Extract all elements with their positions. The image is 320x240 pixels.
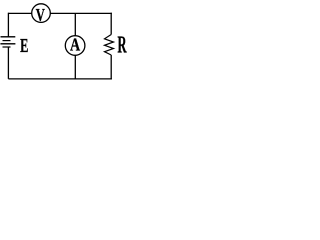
svg-text:R: R xyxy=(117,33,127,59)
wire right: top wire down to resistor xyxy=(110,13,112,35)
battery E: long plate 2 xyxy=(0,43,15,45)
resistor R zigzag xyxy=(105,35,114,56)
svg-text:E: E xyxy=(20,34,28,57)
wire middle: ammeter down to bottom wire xyxy=(74,55,76,79)
voltmeter V1 circle xyxy=(32,4,51,23)
svg-text:V: V xyxy=(36,6,45,26)
wire right: resistor down to bottom wire xyxy=(110,55,112,79)
wire left: top wire down to battery xyxy=(7,13,9,37)
battery E: short plate 1 xyxy=(3,40,11,42)
wire left: battery down to bottom wire xyxy=(7,47,9,79)
battery E: short plate 2 xyxy=(3,46,11,48)
wire top: right segment from voltmeter to right branch xyxy=(50,12,112,14)
svg-text:A: A xyxy=(70,36,80,55)
wire bottom xyxy=(8,78,111,80)
wire middle: top wire down to ammeter xyxy=(74,13,76,35)
ammeter A1 circle xyxy=(65,36,85,56)
wire top: left segment from battery branch to voltmeter xyxy=(8,12,31,14)
battery E: long plate 1 xyxy=(1,36,16,38)
